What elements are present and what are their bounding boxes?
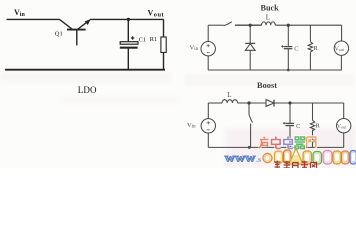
svg-text:L: L: [266, 13, 270, 21]
svg-text:C1: C1: [139, 37, 147, 44]
svg-text:R: R: [316, 123, 321, 130]
svg-text:R1: R1: [150, 36, 158, 43]
svg-text:www: www: [225, 151, 256, 165]
svg-text:LDO: LDO: [78, 85, 97, 95]
svg-text:Vout: Vout: [337, 124, 347, 130]
svg-text:.s: .s: [256, 155, 261, 164]
svg-text:Buck: Buck: [261, 4, 280, 13]
svg-text:R: R: [314, 45, 319, 52]
svg-text:C: C: [296, 123, 300, 130]
svg-text:Q1: Q1: [55, 31, 63, 38]
svg-text:C: C: [294, 46, 298, 53]
svg-text:Boost: Boost: [257, 81, 277, 90]
svg-text:L: L: [227, 91, 231, 99]
svg-text:Vout: Vout: [335, 46, 345, 52]
